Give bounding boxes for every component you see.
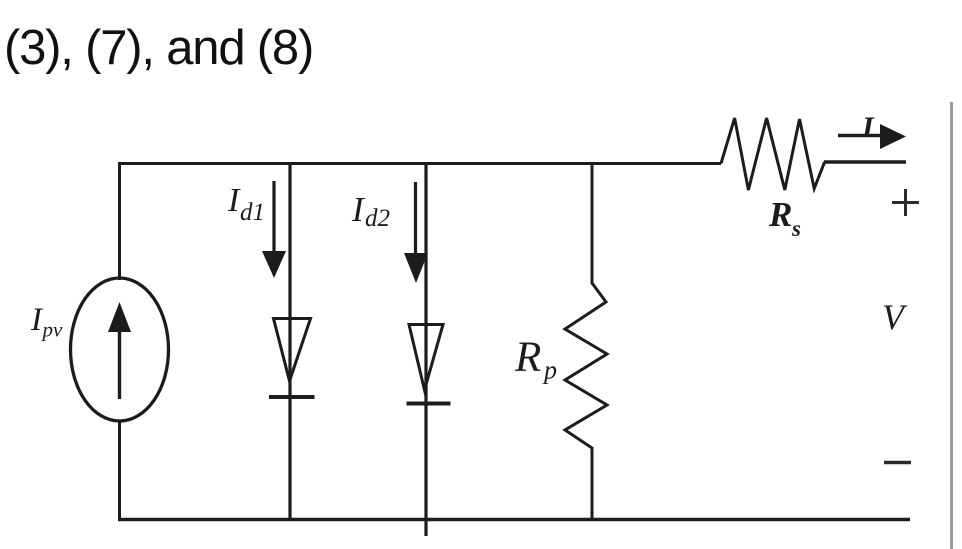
label Id2 (351, 190, 390, 232)
label V (882, 297, 908, 337)
label I (861, 111, 875, 144)
figure edge line (950, 102, 953, 549)
svg-text:d1: d1 (240, 199, 265, 226)
wire diode branch 1 (288, 162, 291, 521)
wire left bottom (118, 420, 121, 521)
svg-text:R: R (514, 334, 541, 381)
label Rs (768, 195, 801, 241)
diode D2 (407, 325, 451, 404)
output current arrow I (838, 124, 906, 149)
svg-text:V: V (882, 297, 908, 337)
svg-text:p: p (542, 356, 557, 385)
resistor Rp (565, 283, 607, 448)
svg-text:(3), (7), and (8): (3), (7), and (8) (4, 21, 313, 75)
wire Rp branch bottom (591, 447, 594, 521)
caption text (4, 21, 313, 75)
terminal plus (892, 189, 919, 216)
terminal minus (884, 461, 911, 465)
current arrow Id1 (262, 181, 286, 278)
wire left top (118, 162, 121, 280)
current source Ipv (71, 278, 169, 421)
wire Rp branch top (591, 162, 594, 284)
wire top (118, 162, 721, 165)
svg-text:d2: d2 (365, 205, 390, 232)
svg-text:I: I (861, 111, 875, 144)
current arrow Id2 (404, 182, 428, 283)
label Rp (514, 334, 557, 385)
svg-text:R: R (768, 195, 792, 234)
label Id1 (227, 182, 265, 226)
wire top right (after Rs) (824, 160, 906, 163)
diode D1 (269, 319, 315, 398)
svg-text:I: I (351, 190, 366, 229)
wire bottom (118, 518, 910, 522)
resistor Rs (721, 118, 825, 190)
wire diode branch 2 (424, 162, 427, 536)
svg-text:s: s (791, 216, 801, 241)
label Ipv (30, 302, 63, 342)
svg-text:pv: pv (41, 318, 64, 342)
svg-text:I: I (227, 182, 241, 219)
